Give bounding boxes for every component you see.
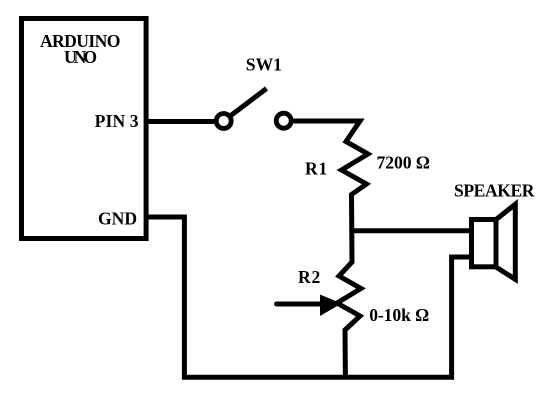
- svg-text:R1: R1: [305, 159, 328, 179]
- svg-text:SW1: SW1: [246, 55, 282, 75]
- svg-text:UNO: UNO: [64, 47, 97, 67]
- svg-text:GND: GND: [98, 209, 137, 229]
- svg-text:SPEAKER: SPEAKER: [454, 181, 535, 201]
- svg-text:0-10k Ω: 0-10k Ω: [369, 305, 429, 325]
- svg-text:PIN 3: PIN 3: [95, 111, 139, 131]
- svg-text:7200 Ω: 7200 Ω: [377, 152, 431, 172]
- svg-text:R2: R2: [298, 267, 321, 287]
